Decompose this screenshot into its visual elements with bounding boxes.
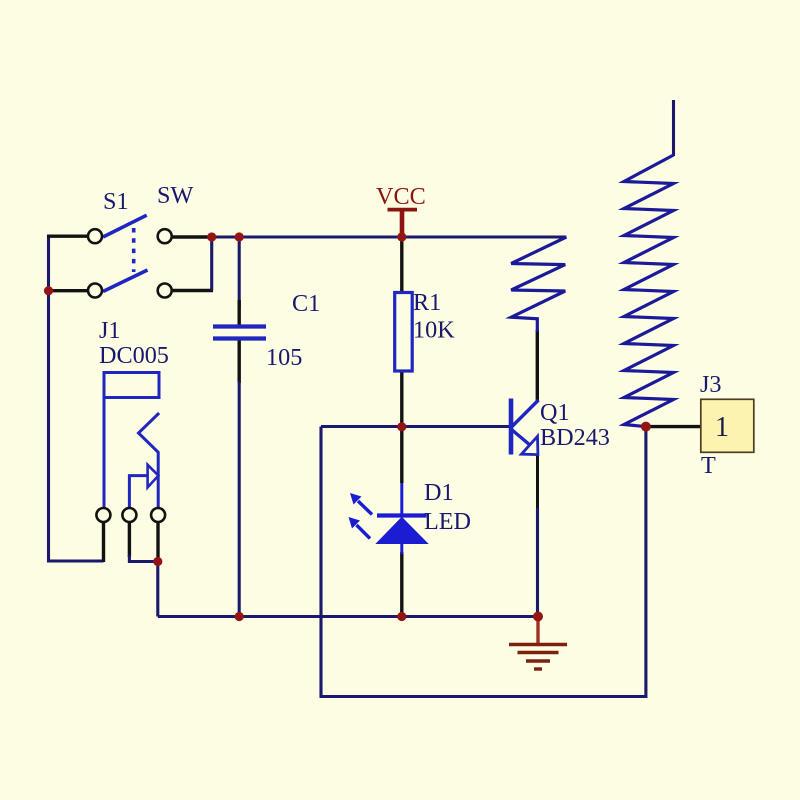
svg-text:BD243: BD243 (540, 424, 610, 451)
LED D1 cathode bar (377, 513, 427, 517)
svg-text:T: T (701, 452, 716, 479)
ground symbol (536, 618, 539, 644)
svg-text:C1: C1 (292, 290, 320, 317)
switch S1 lever bottom (103, 270, 148, 292)
wire ground bus (158, 615, 538, 618)
wire R1 bottom lead (400, 370, 403, 427)
svg-text:J1: J1 (99, 317, 121, 344)
transistor Q1 base bar (509, 399, 514, 455)
transistor Q1 emitter diagonal (512, 430, 531, 446)
switch S1 pin circle top-left (88, 229, 102, 243)
LED D1 triangle (377, 518, 428, 544)
svg-text:VCC: VCC (376, 183, 426, 210)
junction dot VCC (397, 232, 406, 241)
switch S1 lever top (103, 215, 147, 237)
junction dot emitter ground (533, 612, 543, 622)
junction dot J1 pins (153, 557, 162, 566)
switch S1 pin circle bottom-right (158, 284, 172, 298)
wire switch S1 bottom-right pin stub (173, 289, 213, 292)
wire C1 bottom lead (237, 340, 240, 383)
junction dot LED bottom (397, 612, 406, 621)
svg-text:105: 105 (266, 344, 302, 371)
wire J1 pin1 stub (102, 522, 105, 562)
connector J1 body rectangle (104, 373, 159, 398)
wire switch S1 top-right pin stub (173, 235, 212, 238)
junction dot C1 top (235, 232, 244, 241)
LED D1 emission arrow 1 (358, 501, 372, 515)
LED D1 top stub (400, 483, 403, 515)
secondary coil L2 (624, 155, 674, 427)
svg-text:Q1: Q1 (540, 399, 570, 426)
junction dot rail/switch bottom (44, 286, 53, 295)
wire C1 top lead (238, 237, 241, 308)
primary coil L1 (511, 237, 566, 332)
switch S1 pin circle bottom-left (88, 284, 102, 298)
junction dot switch right top (207, 232, 216, 241)
LED D1 bottom stub (400, 543, 403, 554)
wire J3 pin wire (646, 425, 701, 428)
VCC power symbol (388, 208, 418, 212)
junction dot C1 bottom (235, 612, 244, 621)
wire top VCC bus (212, 235, 567, 238)
transistor Q1 emitter arrowhead (521, 436, 538, 454)
capacitor C1 plates (213, 324, 266, 328)
junction dot base node (397, 422, 406, 431)
svg-text:J3: J3 (700, 371, 722, 398)
svg-text:SW: SW (157, 182, 193, 209)
svg-text:R1: R1 (413, 289, 441, 316)
wire feedback loop left/bottom/right (321, 427, 646, 697)
LED D1 emission arrow 2 (357, 525, 371, 539)
wire switch S1 bottom-left pin stub (47, 289, 89, 292)
svg-text:10K: 10K (413, 317, 455, 344)
connector J3 box (701, 399, 754, 452)
wire J1 pin3 stub down to ground bus (156, 522, 159, 563)
wire Q1 emitter lead (536, 454, 539, 510)
wire secondary coil antenna lead (672, 100, 675, 156)
connector J1 pin circle 1 (96, 508, 110, 522)
wire R1 top lead (400, 237, 403, 293)
junction dot secondary bottom (641, 422, 651, 432)
connector J1 switch pin with arrow (129, 476, 146, 509)
wire base net horizontal (321, 425, 510, 428)
svg-text:S1: S1 (103, 188, 129, 215)
switch S1 pin circle top-right (158, 229, 172, 243)
resistor R1 body (395, 293, 413, 372)
wire left rail from switch to J1 pin1 (49, 236, 104, 561)
wire switch S1 top-left pin stub (47, 234, 89, 237)
wire switch right vertical link (210, 237, 213, 291)
wire LED bottom lead (400, 552, 403, 617)
connector J1 tip spring contact (139, 413, 160, 509)
svg-text:DC005: DC005 (99, 342, 169, 369)
switch S1 dotted coupling link (132, 228, 136, 272)
wire LED top lead (400, 427, 403, 483)
wire Q1 collector lead (536, 330, 539, 401)
wire J1 pin2 stub and link (128, 522, 131, 557)
svg-text:1: 1 (715, 412, 729, 443)
transistor Q1 collector diagonal (512, 400, 539, 427)
svg-text:LED: LED (424, 508, 471, 535)
svg-text:D1: D1 (424, 479, 454, 506)
connector J1 pin circle 2 (122, 508, 136, 522)
connector J1 pin circle 3 (151, 508, 165, 522)
connector J1 pin1 sleeve lead (103, 397, 106, 509)
